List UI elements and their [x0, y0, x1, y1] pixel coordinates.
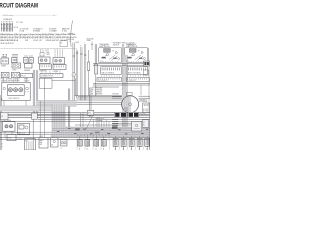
svg-text:c-1: c-1: [53, 15, 55, 17]
svg-text:CONNECTOR 6P: CONNECTOR 6P: [41, 75, 53, 77]
svg-text:1 2 3 4 5 6 7 8: 1 2 3 4 5 6 7 8: [98, 80, 108, 82]
svg-text:ST: ST: [143, 122, 145, 124]
svg-text:CDI UNIT: CDI UNIT: [140, 113, 146, 115]
svg-text:RCUIT DIAGRAM: RCUIT DIAGRAM: [0, 3, 38, 10]
svg-text:NEUT: NEUT: [40, 140, 44, 142]
svg-text:OIL: OIL: [51, 145, 54, 147]
svg-text:2 Br . LIGHTING: 2 Br . LIGHTING: [91, 90, 104, 92]
svg-text:OFF ON P B ST: OFF ON P B ST: [0, 43, 14, 45]
svg-text:B/W B/Y L/W G/Y R/W Y/R W/G Br: B/W B/Y L/W G/Y R/W Y/R W/G Br/W L/R G/W…: [0, 37, 77, 39]
svg-text:4P: 4P: [1, 116, 3, 118]
svg-text:o n: o n: [131, 55, 133, 57]
svg-text:RL: RL: [143, 124, 145, 126]
svg-text:LIGHT SWITCH: LIGHT SWITCH: [99, 46, 110, 48]
svg-text:FUEL: FUEL: [1, 79, 5, 81]
svg-text:B Br L Y G R W Gr: B Br L Y G R W Gr: [102, 73, 115, 75]
svg-text:GROUND: GROUND: [87, 38, 95, 40]
svg-text:TEMP: TEMP: [24, 79, 28, 81]
svg-text:BLACK BROWN BLUE: BLACK BROWN BLUE: [0, 39, 19, 42]
svg-text:IGN SW: IGN SW: [53, 71, 59, 73]
svg-text:B Br L Y G R W Gr: B Br L Y G R W Gr: [128, 73, 141, 75]
svg-text:LO BEAM: LO BEAM: [49, 29, 57, 32]
svg-text:FUSE BOX: FUSE BOX: [4, 19, 13, 21]
svg-text:1 B IGNITION: 1 B IGNITION: [95, 119, 104, 121]
svg-text:TURN: TURN: [12, 70, 16, 72]
svg-text:SEL: SEL: [25, 140, 28, 142]
svg-text:SPEED: SPEED: [7, 79, 13, 81]
svg-text:ENGINE STOP: ENGINE STOP: [126, 44, 136, 46]
svg-text:B: B: [61, 148, 62, 150]
svg-text:R: R: [80, 46, 81, 48]
svg-text:o n: o n: [105, 55, 107, 57]
svg-text:W/B: W/B: [25, 40, 28, 42]
svg-text:TPS: TPS: [88, 113, 91, 115]
svg-text:M-M: M-M: [76, 42, 80, 44]
svg-text:B: B: [70, 41, 71, 43]
svg-text:B: B: [76, 49, 77, 51]
svg-text:PULSER: PULSER: [113, 93, 120, 95]
svg-text:ST MTR: ST MTR: [17, 139, 22, 141]
svg-text:1 2 3 4 5 6 7: 1 2 3 4 5 6 7: [128, 80, 137, 82]
svg-text:SWITCH: SWITCH: [113, 44, 120, 46]
svg-text:L/B G/L Y/W: L/B G/L Y/W: [33, 40, 42, 42]
svg-text:B: B: [2, 143, 3, 145]
svg-text:E: E: [2, 147, 3, 149]
svg-text:DIMMER: DIMMER: [24, 70, 31, 72]
svg-text:1 B . . GROUND: 1 B . . GROUND: [91, 88, 104, 90]
svg-text:PILOT: PILOT: [21, 75, 25, 77]
svg-text:B.Black Br.Brown L.Blue Lg.Lt: B.Black Br.Brown L.Blue Lg.Lt green G.Gr…: [0, 33, 75, 36]
svg-text:FUEL TEMP OIL: FUEL TEMP OIL: [9, 98, 20, 100]
svg-text:FUSE: FUSE: [8, 138, 12, 140]
svg-text:HI BEAM: HI BEAM: [33, 29, 41, 32]
svg-text:(IGNITION): (IGNITION): [66, 39, 75, 41]
svg-text:NOTE wiring: NOTE wiring: [3, 15, 13, 17]
svg-text:Y: Y: [84, 43, 85, 45]
